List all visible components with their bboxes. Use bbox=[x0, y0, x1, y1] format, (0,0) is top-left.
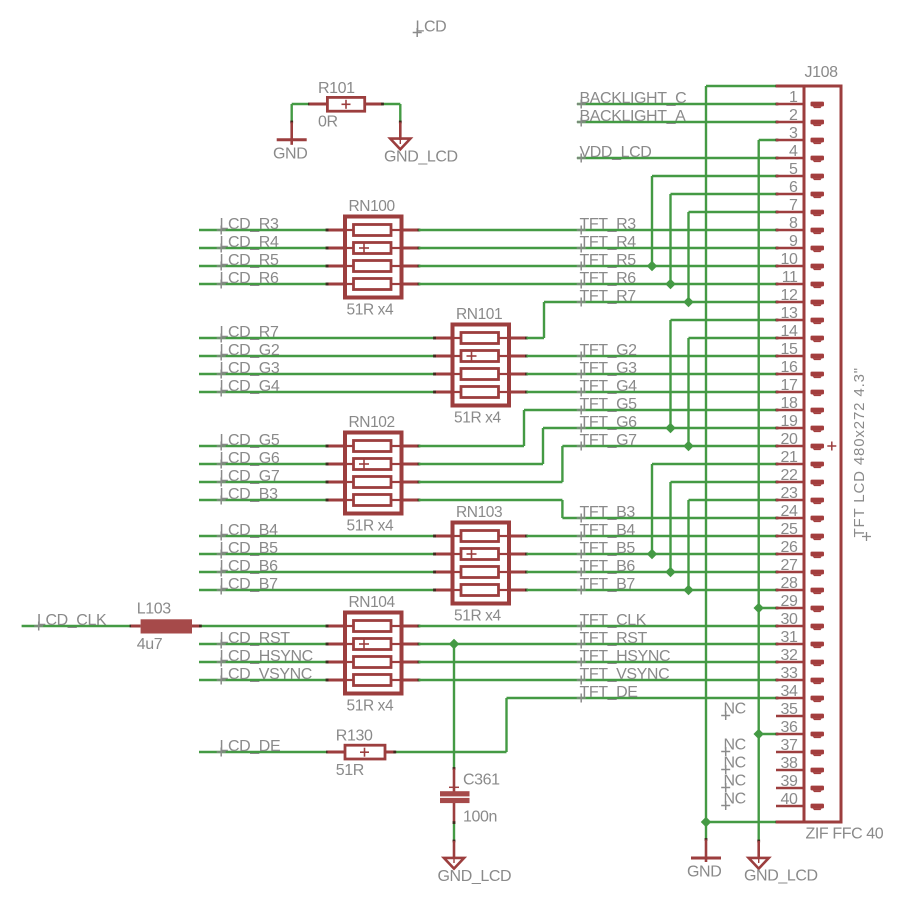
connector J108 pin 17 bbox=[776, 377, 824, 396]
svg-text:16: 16 bbox=[781, 359, 798, 376]
ground GND (bottom) bbox=[687, 840, 721, 881]
svg-text:LCD_B4: LCD_B4 bbox=[220, 522, 279, 539]
wire net LCD_B6 bbox=[199, 571, 436, 574]
wire pin13 tie to TFT_G6 bbox=[671, 319, 779, 428]
junction node TFT_B6 tie bbox=[665, 567, 675, 577]
net label TFT_R4 bbox=[577, 234, 637, 253]
svg-text:LCD_G7: LCD_G7 bbox=[220, 468, 280, 485]
connector J108 pin 9 bbox=[776, 233, 824, 252]
svg-text:51R x4: 51R x4 bbox=[347, 698, 394, 715]
connector J108 pin 25 bbox=[776, 521, 824, 540]
svg-text:R101: R101 bbox=[318, 80, 355, 97]
connector J108 pin 32 bbox=[776, 647, 824, 666]
connector J108 pin 5 bbox=[776, 161, 824, 180]
junction node GND at connector frame bbox=[701, 817, 711, 827]
net label LCD_B5 bbox=[217, 540, 278, 559]
svg-text:3: 3 bbox=[789, 125, 798, 142]
svg-text:51R x4: 51R x4 bbox=[347, 302, 394, 319]
svg-text:15: 15 bbox=[781, 341, 798, 358]
connector J108 pin 37 bbox=[776, 737, 824, 756]
connector J108 pin 27 bbox=[776, 557, 824, 576]
wire net TFT_DE bbox=[507, 697, 779, 700]
connector J108 frame bbox=[776, 64, 884, 843]
svg-text:0R: 0R bbox=[318, 114, 338, 131]
wire net TFT_B6 bbox=[527, 571, 779, 574]
svg-text:23: 23 bbox=[781, 485, 798, 502]
svg-text:TFT_RST: TFT_RST bbox=[580, 630, 648, 647]
wire net VDD_LCD bbox=[577, 157, 778, 160]
svg-text:LCD_B5: LCD_B5 bbox=[220, 540, 279, 557]
net label TFT_DE bbox=[577, 684, 638, 703]
wire net LCD_B7 bbox=[199, 589, 436, 592]
svg-text:TFT_R5: TFT_R5 bbox=[580, 252, 637, 269]
svg-text:TFT_HSYNC: TFT_HSYNC bbox=[580, 648, 671, 665]
connector J108 pin 4 bbox=[776, 143, 824, 162]
wire TFT_RST junction down to C361 bbox=[453, 644, 456, 770]
wire net TFT_G3 bbox=[527, 373, 779, 376]
svg-text:LCD_R4: LCD_R4 bbox=[220, 234, 279, 251]
resistor network RN100 bbox=[326, 198, 421, 319]
junction node GND_LCD pin29 bbox=[753, 603, 763, 613]
net label TFT_G4 bbox=[577, 378, 637, 397]
svg-text:RN104: RN104 bbox=[349, 594, 396, 611]
svg-text:38: 38 bbox=[781, 755, 798, 772]
net label LCD_G2 bbox=[217, 342, 280, 361]
wire pin36 to GND_LCD bus bbox=[759, 733, 779, 736]
svg-text:TFT_R7: TFT_R7 bbox=[580, 288, 637, 305]
svg-text:LCD_G5: LCD_G5 bbox=[220, 432, 280, 449]
connector J108 pin 21 bbox=[776, 449, 824, 468]
junction node GND_LCD pin36 bbox=[753, 729, 763, 739]
wire net BACKLIGHT_C bbox=[577, 103, 778, 106]
net label TFT_G5 bbox=[577, 396, 637, 415]
net label TFT_R3 bbox=[577, 216, 637, 235]
net label TFT_R6 bbox=[577, 270, 637, 289]
svg-text:1: 1 bbox=[789, 89, 798, 106]
svg-text:LCD_HSYNC: LCD_HSYNC bbox=[220, 648, 313, 665]
connector J108 pin 40 bbox=[776, 791, 824, 810]
svg-text:TFT_G4: TFT_G4 bbox=[580, 378, 638, 395]
svg-text:10: 10 bbox=[781, 251, 798, 268]
connector J108 pin 10 bbox=[776, 251, 824, 270]
svg-text:BACKLIGHT_A: BACKLIGHT_A bbox=[580, 108, 687, 125]
svg-text:7: 7 bbox=[789, 197, 798, 214]
net label TFT_R5 bbox=[577, 252, 637, 271]
wire net TFT_G7 bbox=[419, 445, 779, 482]
connector J108 pin 18 bbox=[776, 395, 824, 414]
connector J108 pin 35 bbox=[776, 701, 824, 720]
svg-text:LCD_G3: LCD_G3 bbox=[220, 360, 280, 377]
connector J108 pin 2 bbox=[776, 107, 824, 126]
connector J108 pin 26 bbox=[776, 539, 824, 558]
svg-text:TFT_B3: TFT_B3 bbox=[580, 504, 636, 521]
net label LCD_R5 bbox=[217, 252, 279, 271]
svg-text:TFT_DE: TFT_DE bbox=[580, 684, 638, 701]
svg-text:LCD_B3: LCD_B3 bbox=[220, 486, 279, 503]
wire net LCD_G4 bbox=[199, 391, 436, 394]
net label VDD_LCD bbox=[577, 144, 652, 163]
ground GND (left of R101) bbox=[273, 122, 307, 162]
connector J108 pin 7 bbox=[776, 197, 824, 216]
net label LCD_VSYNC bbox=[217, 666, 312, 685]
wire net LCD_HSYNC bbox=[199, 661, 328, 664]
svg-text:34: 34 bbox=[781, 683, 798, 700]
svg-text:4: 4 bbox=[789, 143, 798, 160]
svg-text:RN103: RN103 bbox=[456, 504, 502, 521]
wire pin7 tie to TFT_R7 bbox=[689, 211, 779, 302]
net label NC pin 38 bbox=[721, 755, 746, 775]
net label LCD (sheet title) bbox=[413, 19, 447, 38]
svg-text:30: 30 bbox=[781, 611, 798, 628]
wire net TFT_R7 bbox=[527, 301, 779, 338]
net label TFT_B7 bbox=[577, 576, 636, 595]
wire C361 to GND_LCD bbox=[453, 821, 456, 842]
svg-text:40: 40 bbox=[781, 791, 798, 808]
svg-text:100n: 100n bbox=[463, 809, 497, 826]
wire net TFT_G2 bbox=[527, 355, 779, 358]
connector J108 pin 16 bbox=[776, 359, 824, 378]
svg-text:J108: J108 bbox=[805, 64, 839, 81]
connector J108 pin 8 bbox=[776, 215, 824, 234]
connector J108 pin 12 bbox=[776, 287, 824, 306]
svg-text:19: 19 bbox=[781, 413, 798, 430]
svg-text:21: 21 bbox=[781, 449, 798, 466]
resistor R130 bbox=[328, 728, 396, 780]
wire net TFT_RST bbox=[419, 643, 779, 646]
net label LCD_G4 bbox=[217, 378, 280, 397]
svg-text:TFT_G3: TFT_G3 bbox=[580, 360, 638, 377]
svg-text:25: 25 bbox=[781, 521, 798, 538]
svg-text:LCD_R5: LCD_R5 bbox=[220, 252, 279, 269]
junction node TFT_G6 tie bbox=[665, 423, 675, 433]
connector J108 pin 6 bbox=[776, 179, 824, 198]
svg-text:TFT_R4: TFT_R4 bbox=[580, 234, 637, 251]
svg-text:8: 8 bbox=[789, 215, 798, 232]
wire net BACKLIGHT_A bbox=[577, 121, 778, 124]
junction node TFT_B5 tie bbox=[647, 549, 657, 559]
connector J108 pin 1 bbox=[776, 89, 824, 108]
svg-text:LCD_G6: LCD_G6 bbox=[220, 450, 280, 467]
svg-text:LCD_G4: LCD_G4 bbox=[220, 378, 280, 395]
net label LCD_B6 bbox=[217, 558, 278, 577]
net label TFT_R7 bbox=[577, 288, 637, 307]
svg-text:TFT LCD 480x272 4.3": TFT LCD 480x272 4.3" bbox=[851, 367, 868, 537]
svg-text:9: 9 bbox=[789, 233, 798, 250]
net label TFT_G7 bbox=[577, 432, 637, 451]
wire net TFT_G4 bbox=[527, 391, 779, 394]
wire pin6 tie to TFT_R6 bbox=[671, 193, 779, 284]
svg-text:ZIF FFC 40: ZIF FFC 40 bbox=[806, 826, 884, 843]
svg-text:26: 26 bbox=[781, 539, 798, 556]
svg-text:33: 33 bbox=[781, 665, 798, 682]
svg-text:31: 31 bbox=[781, 629, 798, 646]
connector J108 pin 38 bbox=[776, 755, 824, 774]
svg-text:GND: GND bbox=[687, 864, 721, 881]
net label TFT_B4 bbox=[577, 522, 636, 541]
connector J108 pin 36 bbox=[776, 719, 824, 738]
svg-text:29: 29 bbox=[781, 593, 798, 610]
net label TFT_G3 bbox=[577, 360, 637, 379]
net label LCD_HSYNC bbox=[217, 648, 313, 667]
net label LCD_G6 bbox=[217, 450, 280, 469]
wire pin5 tie to TFT_R5 bbox=[652, 175, 778, 266]
wire R130 to TFT_DE corner bbox=[393, 698, 506, 753]
svg-text:4u7: 4u7 bbox=[137, 636, 163, 653]
wire net TFT_G5 bbox=[419, 409, 779, 446]
wire net GND bus bbox=[706, 85, 778, 824]
net label TFT_VSYNC bbox=[577, 666, 670, 685]
net label NC pin 35 bbox=[721, 701, 746, 721]
wire net TFT_G6 bbox=[419, 427, 779, 464]
wire net LCD_R7 bbox=[199, 337, 436, 340]
svg-text:TFT_G6: TFT_G6 bbox=[580, 414, 638, 431]
connector J108 pin 20 bbox=[776, 431, 824, 450]
wire GND bus to GND symbol bbox=[705, 822, 708, 841]
svg-text:51R: 51R bbox=[336, 762, 364, 779]
svg-text:27: 27 bbox=[781, 557, 798, 574]
connector J108 pin 39 bbox=[776, 773, 824, 792]
svg-text:51R x4: 51R x4 bbox=[347, 518, 394, 535]
svg-text:13: 13 bbox=[781, 305, 798, 322]
wire net TFT_B3 bbox=[419, 500, 779, 519]
resistor network RN102 bbox=[326, 414, 421, 535]
wire pin21 tie to TFT_B5 bbox=[652, 463, 778, 554]
connector J108 device label (vertical) bbox=[851, 367, 871, 541]
wire pin22 tie to TFT_B6 bbox=[671, 481, 779, 572]
wire net LCD_DE bbox=[199, 751, 329, 754]
net label NC pin 37 bbox=[721, 737, 746, 757]
svg-text:TFT_R6: TFT_R6 bbox=[580, 270, 637, 287]
net label BACKLIGHT_C bbox=[577, 90, 687, 109]
wire net LCD_G3 bbox=[199, 373, 436, 376]
net label TFT_RST bbox=[577, 630, 648, 649]
svg-text:TFT_VSYNC: TFT_VSYNC bbox=[580, 666, 670, 683]
net label LCD_R4 bbox=[217, 234, 279, 253]
svg-text:LCD_G2: LCD_G2 bbox=[220, 342, 280, 359]
connector J108 pin 34 bbox=[776, 683, 824, 702]
net label TFT_CLK bbox=[577, 612, 647, 631]
net label LCD_G3 bbox=[217, 360, 280, 379]
svg-text:TFT_G5: TFT_G5 bbox=[580, 396, 638, 413]
svg-text:TFT_R3: TFT_R3 bbox=[580, 216, 637, 233]
wire net LCD_R4 bbox=[199, 247, 328, 250]
svg-text:GND_LCD: GND_LCD bbox=[744, 868, 818, 885]
connector J108 pin 29 bbox=[776, 593, 824, 612]
wire net LCD_B3 bbox=[199, 499, 328, 502]
connector J108 pin 14 bbox=[776, 323, 824, 342]
svg-text:TFT_B4: TFT_B4 bbox=[580, 522, 636, 539]
svg-text:24: 24 bbox=[781, 503, 798, 520]
connector J108 pin 24 bbox=[776, 503, 824, 522]
net label LCD_RST bbox=[217, 630, 291, 649]
svg-text:LCD_B6: LCD_B6 bbox=[220, 558, 279, 575]
net label LCD_DE bbox=[217, 738, 281, 757]
wire net TFT_R3 bbox=[419, 229, 779, 232]
svg-text:TFT_B6: TFT_B6 bbox=[580, 558, 636, 575]
wire net TFT_VSYNC bbox=[419, 679, 779, 682]
resistor network RN103 bbox=[433, 504, 528, 625]
svg-text:LCD_CLK: LCD_CLK bbox=[37, 612, 107, 629]
net label NC pin 40 bbox=[721, 791, 746, 811]
wire net TFT_CLK bbox=[419, 625, 779, 628]
wire net GND_LCD bus bbox=[757, 139, 778, 843]
svg-text:BACKLIGHT_C: BACKLIGHT_C bbox=[580, 90, 687, 107]
net label BACKLIGHT_A bbox=[577, 108, 686, 127]
svg-text:2: 2 bbox=[789, 107, 798, 124]
svg-text:LCD_RST: LCD_RST bbox=[220, 630, 291, 647]
net label NC pin 39 bbox=[721, 773, 746, 793]
svg-text:TFT_G7: TFT_G7 bbox=[580, 432, 638, 449]
wire net TFT_HSYNC bbox=[419, 661, 779, 664]
svg-text:14: 14 bbox=[781, 323, 798, 340]
svg-text:35: 35 bbox=[781, 701, 798, 718]
junction on TFT_RST at C361 tap bbox=[449, 639, 459, 649]
net label TFT_B3 bbox=[577, 504, 636, 523]
wire net TFT_B4 bbox=[527, 535, 779, 538]
connector J108 pin 30 bbox=[776, 611, 824, 630]
net label TFT_G2 bbox=[577, 342, 637, 361]
junction node TFT_B7 tie bbox=[683, 585, 693, 595]
wire net LCD_CLK bbox=[22, 625, 133, 628]
svg-text:17: 17 bbox=[781, 377, 798, 394]
wire net LCD_G5 bbox=[199, 445, 328, 448]
svg-text:51R x4: 51R x4 bbox=[454, 410, 501, 427]
connector J108 pin 15 bbox=[776, 341, 824, 360]
net label LCD_R3 bbox=[217, 216, 279, 235]
wire L103 to RN104 bbox=[199, 625, 328, 628]
wire net TFT_B5 bbox=[527, 553, 779, 556]
wire net LCD_G6 bbox=[199, 463, 328, 466]
svg-text:RN101: RN101 bbox=[456, 306, 502, 323]
svg-text:36: 36 bbox=[781, 719, 798, 736]
svg-text:TFT_B7: TFT_B7 bbox=[580, 576, 636, 593]
svg-text:C361: C361 bbox=[463, 771, 500, 788]
wire pin23 tie to TFT_B7 bbox=[689, 499, 779, 590]
wire net LCD_R3 bbox=[199, 229, 328, 232]
wire net LCD_VSYNC bbox=[199, 679, 328, 682]
ground GND_LCD (right of R101) bbox=[384, 122, 458, 165]
net label LCD_G7 bbox=[217, 468, 280, 487]
wire net LCD_R6 bbox=[199, 283, 328, 286]
connector J108 pin 11 bbox=[776, 269, 824, 288]
svg-text:28: 28 bbox=[781, 575, 798, 592]
svg-text:LCD_R6: LCD_R6 bbox=[220, 270, 279, 287]
capacitor C361 bbox=[440, 769, 500, 826]
net label LCD_B7 bbox=[217, 576, 278, 595]
svg-text:18: 18 bbox=[781, 395, 798, 412]
svg-text:22: 22 bbox=[781, 467, 798, 484]
svg-text:VDD_LCD: VDD_LCD bbox=[580, 144, 652, 161]
net label TFT_G6 bbox=[577, 414, 637, 433]
svg-text:6: 6 bbox=[789, 179, 798, 196]
net label TFT_B6 bbox=[577, 558, 636, 577]
wire net TFT_R5 bbox=[419, 265, 779, 268]
svg-text:GND_LCD: GND_LCD bbox=[438, 868, 512, 885]
wire net LCD_B5 bbox=[199, 553, 436, 556]
net label TFT_HSYNC bbox=[577, 648, 670, 667]
svg-text:RN100: RN100 bbox=[349, 198, 396, 215]
junction node TFT_R5 tie bbox=[647, 261, 657, 271]
junction node TFT_G7 tie bbox=[683, 441, 693, 451]
wire pin29 to GND_LCD bus bbox=[759, 607, 779, 610]
net label LCD_G5 bbox=[217, 432, 280, 451]
wire pin14 tie to TFT_G7 bbox=[689, 337, 779, 446]
connector J108 pin 22 bbox=[776, 467, 824, 486]
svg-text:20: 20 bbox=[781, 431, 798, 448]
wire GND to R101 left bbox=[290, 103, 311, 124]
svg-text:LCD_R3: LCD_R3 bbox=[220, 216, 279, 233]
inductor L103 bbox=[131, 601, 200, 654]
junction node TFT_R7 tie bbox=[683, 297, 693, 307]
svg-text:LCD_VSYNC: LCD_VSYNC bbox=[220, 666, 312, 683]
wire R101 right to GND_LCD bbox=[381, 103, 402, 124]
svg-text:LCD_DE: LCD_DE bbox=[220, 738, 281, 755]
connector J108 pin 28 bbox=[776, 575, 824, 594]
wire net TFT_R4 bbox=[419, 247, 779, 250]
wire net LCD_G2 bbox=[199, 355, 436, 358]
svg-text:GND_LCD: GND_LCD bbox=[384, 149, 458, 166]
connector J108 pin 31 bbox=[776, 629, 824, 648]
ground GND_LCD (below C361) bbox=[438, 841, 512, 885]
connector J108 pin 3 bbox=[776, 125, 824, 144]
connector J108 pin 13 bbox=[776, 305, 824, 324]
net label LCD_R6 bbox=[217, 270, 279, 289]
junction node TFT_R6 tie bbox=[665, 279, 675, 289]
svg-text:GND: GND bbox=[273, 146, 307, 163]
resistor network RN104 bbox=[326, 594, 421, 715]
svg-text:TFT_CLK: TFT_CLK bbox=[580, 612, 647, 629]
svg-text:TFT_G2: TFT_G2 bbox=[580, 342, 638, 359]
connector J108 pin 33 bbox=[776, 665, 824, 684]
net label LCD_B4 bbox=[217, 522, 278, 541]
resistor network RN101 bbox=[433, 306, 528, 427]
connector J108 pin 23 bbox=[776, 485, 824, 504]
net label LCD_R7 bbox=[217, 324, 279, 343]
svg-text:37: 37 bbox=[781, 737, 798, 754]
wire net TFT_R6 bbox=[419, 283, 779, 286]
svg-text:32: 32 bbox=[781, 647, 798, 664]
connector J108 pin 19 bbox=[776, 413, 824, 432]
svg-text:RN102: RN102 bbox=[349, 414, 395, 431]
svg-text:12: 12 bbox=[781, 287, 798, 304]
svg-text:TFT_B5: TFT_B5 bbox=[580, 540, 636, 557]
svg-text:11: 11 bbox=[782, 269, 798, 286]
svg-text:R130: R130 bbox=[336, 728, 373, 745]
svg-text:5: 5 bbox=[789, 161, 798, 178]
wire net LCD_G7 bbox=[199, 481, 328, 484]
wire net TFT_B7 bbox=[527, 589, 779, 592]
net label LCD_B3 bbox=[217, 486, 278, 505]
net label LCD_CLK bbox=[34, 612, 107, 631]
svg-text:LCD_B7: LCD_B7 bbox=[220, 576, 279, 593]
svg-text:LCD_R7: LCD_R7 bbox=[220, 324, 279, 341]
ground GND_LCD (bottom) bbox=[744, 841, 818, 885]
wire net LCD_R5 bbox=[199, 265, 328, 268]
wire net LCD_RST bbox=[199, 643, 328, 646]
svg-text:L103: L103 bbox=[137, 601, 171, 618]
svg-text:51R x4: 51R x4 bbox=[454, 608, 501, 625]
wire net LCD_B4 bbox=[199, 535, 436, 538]
svg-text:39: 39 bbox=[781, 773, 798, 790]
resistor R101 bbox=[309, 80, 382, 131]
net label TFT_B5 bbox=[577, 540, 636, 559]
